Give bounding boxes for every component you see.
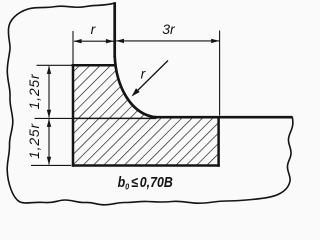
wavy break line border [7, 3, 293, 205]
extension line mid-left [35, 117, 73, 119]
section cut: bar top edge (thick) [72, 64, 116, 67]
dimension line 3r [116, 39, 219, 43]
dimension line 1,25r (upper) [47, 66, 51, 118]
parting line through hatch [73, 117, 156, 119]
fillet curve (thick) [115, 56, 157, 117]
part edge: flange top surface (thick) [155, 116, 292, 119]
section cut: flange bottom edge (thick) [72, 164, 220, 167]
section cut: bar left edge (thick) [72, 64, 75, 167]
leader line for fillet radius r [132, 61, 169, 97]
extension line above bar left edge [72, 31, 74, 64]
extension line top-left [37, 64, 72, 66]
svg-text:1,25r: 1,25r [26, 123, 42, 159]
svg-text:3r: 3r [162, 21, 176, 37]
dimension line r (top) [74, 39, 114, 43]
extension line bottom-left [31, 164, 71, 166]
part edge: vertical wall surface (thick) [113, 2, 116, 57]
dimension line 1,25r (lower) [47, 119, 51, 165]
hatched cross-section region [73, 56, 219, 166]
svg-text:1,25r: 1,25r [26, 73, 42, 109]
extension line right (3r) [219, 31, 221, 116]
section cut: flange right edge (thick) [217, 116, 220, 167]
